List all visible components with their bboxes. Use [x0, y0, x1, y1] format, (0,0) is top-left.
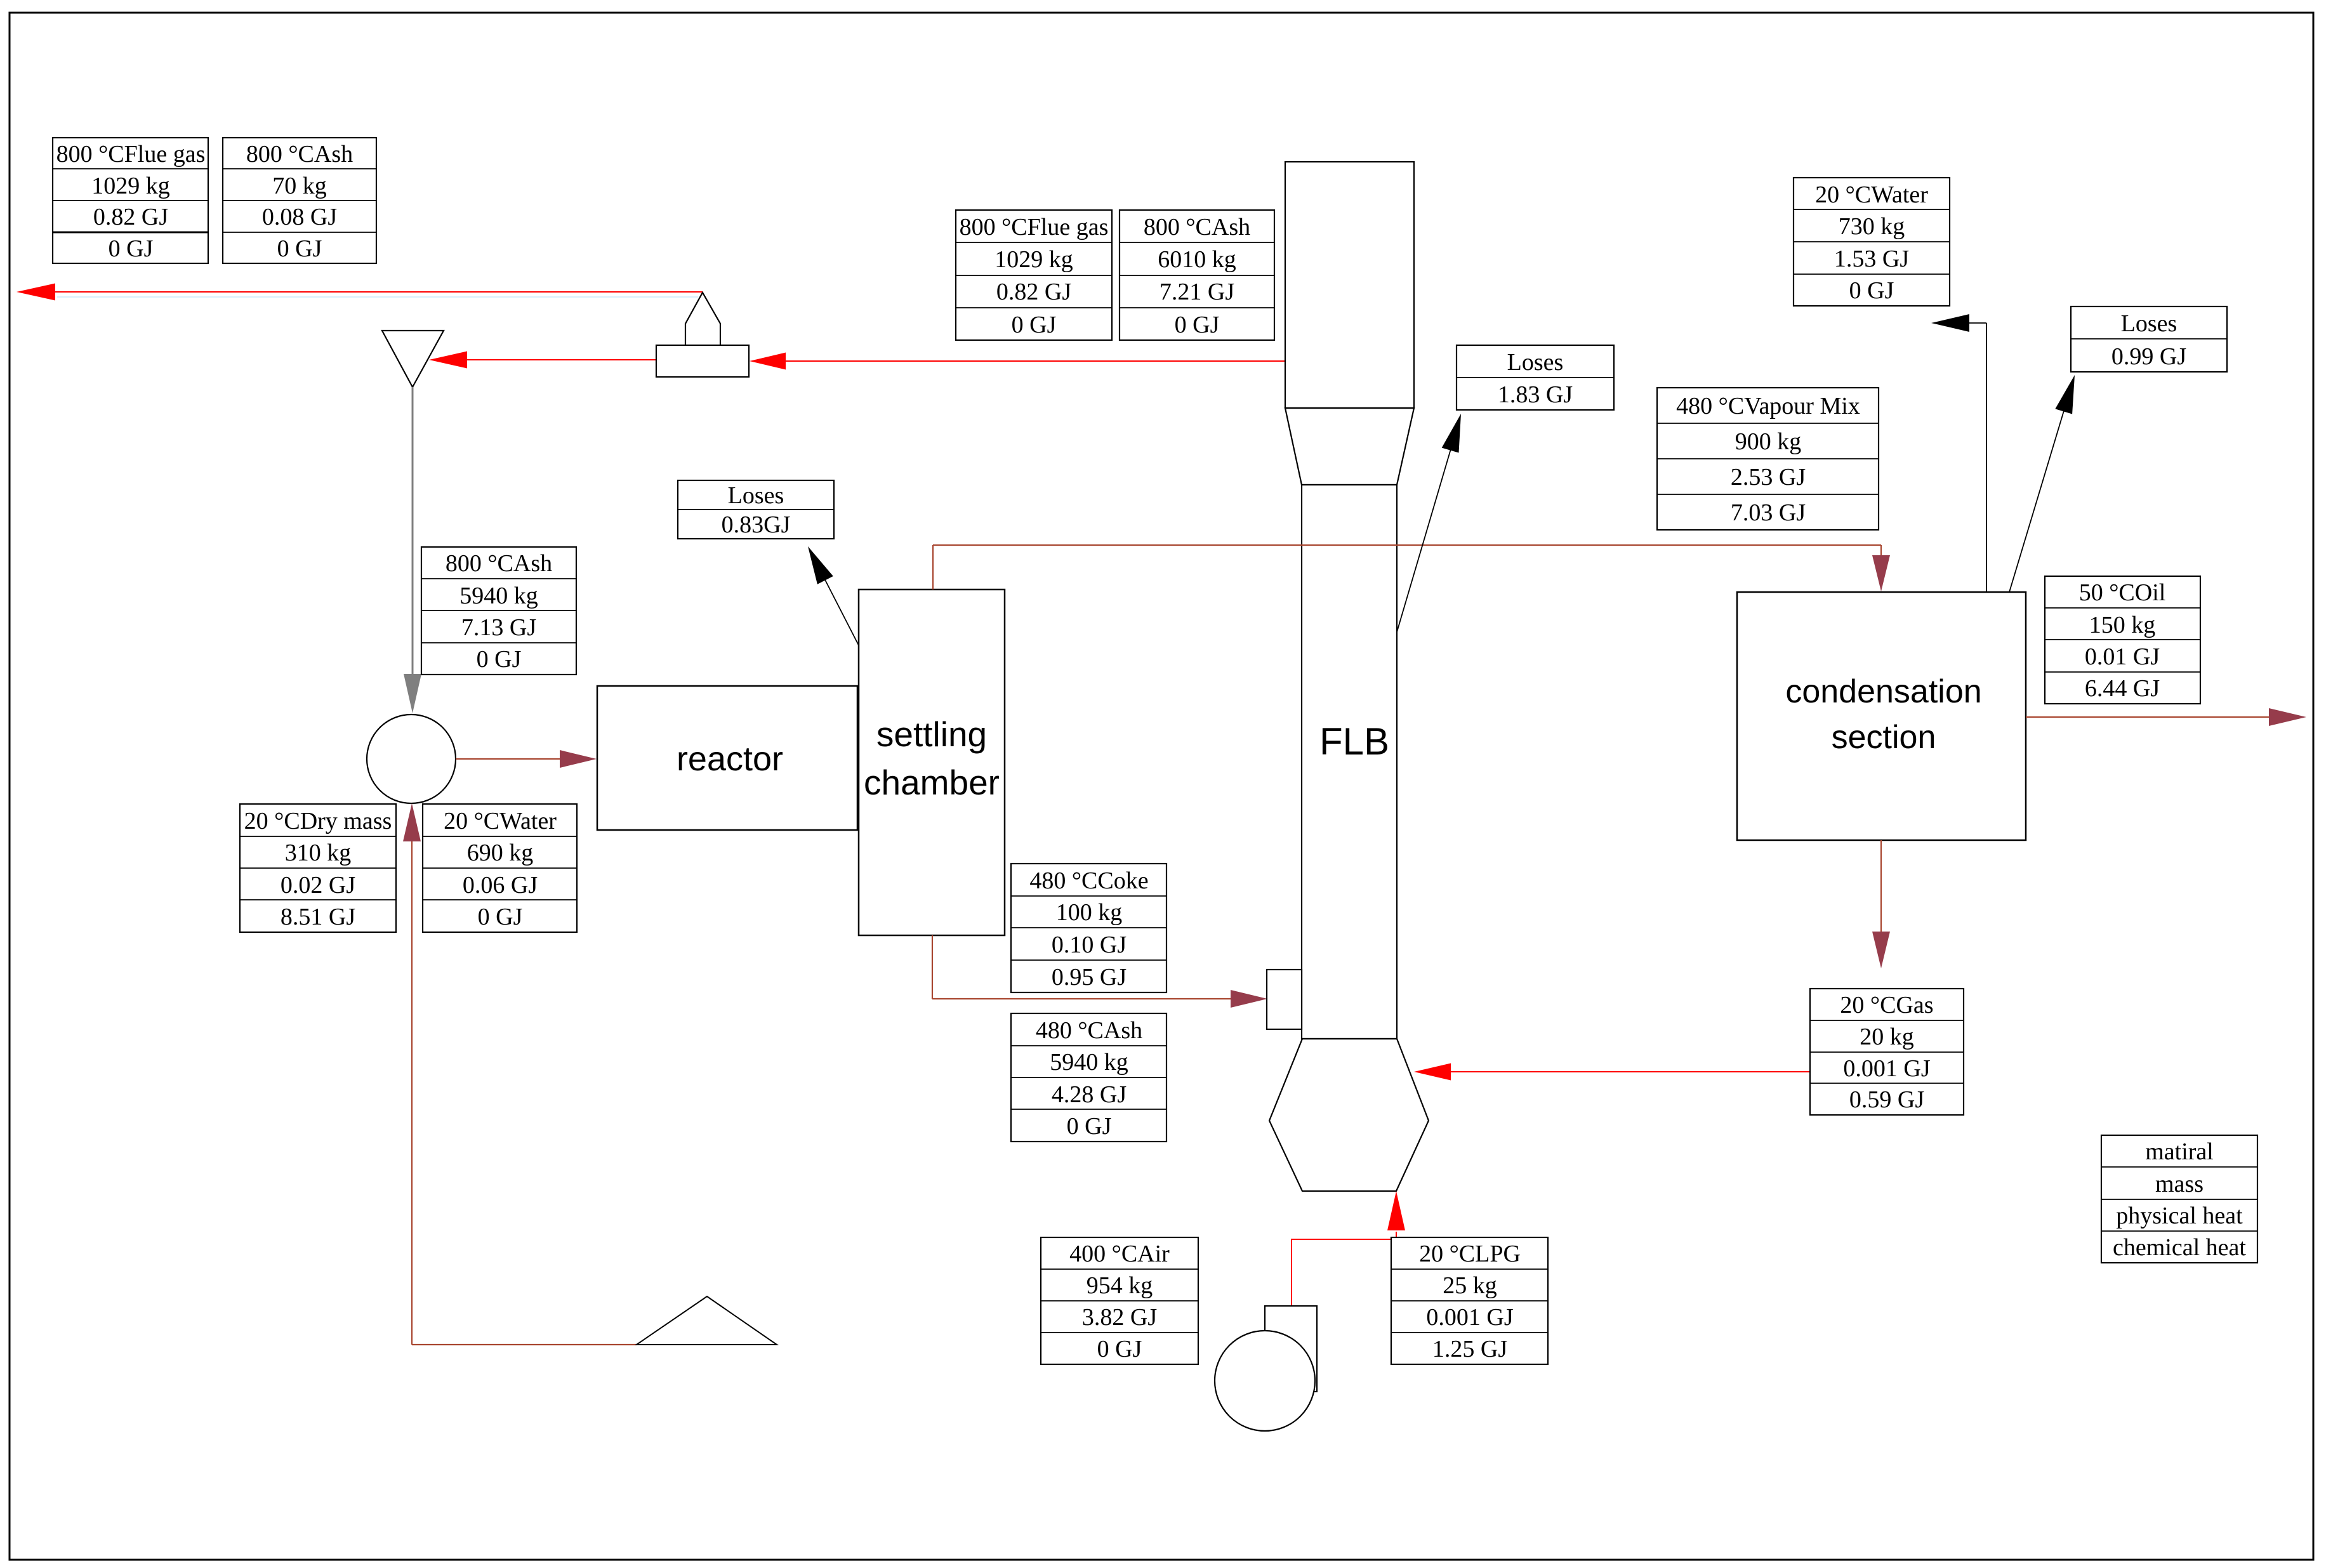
- wire faint blue shadow: [57, 296, 698, 298]
- svg-text:0 GJ: 0 GJ: [1175, 312, 1220, 338]
- svg-text:0.001 GJ: 0.001 GJ: [1843, 1055, 1930, 1082]
- svg-text:690 kg: 690 kg: [467, 840, 534, 866]
- table coke: [1011, 864, 1166, 992]
- table oil: [2045, 576, 2200, 704]
- svg-text:0.02 GJ: 0.02 GJ: [281, 872, 355, 899]
- arrow red into funnel: [429, 352, 467, 369]
- svg-text:0.01 GJ: 0.01 GJ: [2085, 643, 2160, 670]
- wire brick vapour down: [1880, 545, 1882, 557]
- table dry mass feed: [240, 804, 396, 932]
- FLB column: [1302, 485, 1397, 1039]
- FLB nozzle: [1267, 970, 1302, 1029]
- svg-text:1029 kg: 1029 kg: [994, 246, 1073, 273]
- table ash fines: [223, 138, 376, 263]
- wire black water horiz: [1967, 322, 1986, 324]
- svg-text:mass: mass: [2155, 1171, 2204, 1197]
- svg-text:310 kg: 310 kg: [285, 840, 352, 866]
- table water feed: [423, 804, 577, 932]
- wire brick vapour up: [932, 545, 934, 590]
- arrow maroon into condensation: [1872, 555, 1890, 591]
- svg-text:50 °COil: 50 °COil: [2079, 579, 2166, 606]
- table ash 480: [1011, 1013, 1166, 1142]
- svg-text:0 GJ: 0 GJ: [478, 904, 523, 930]
- svg-text:480 °CAsh: 480 °CAsh: [1036, 1017, 1142, 1044]
- svg-text:0 GJ: 0 GJ: [277, 235, 322, 262]
- svg-text:0.95 GJ: 0.95 GJ: [1052, 964, 1127, 991]
- T separator body: [656, 345, 749, 377]
- wire brick coke across: [932, 998, 1231, 999]
- svg-text:0.001 GJ: 0.001 GJ: [1426, 1304, 1513, 1331]
- svg-text:400 °CAir: 400 °CAir: [1069, 1241, 1170, 1267]
- arrow gray into mixer: [404, 674, 421, 713]
- table loses FLB: [1457, 345, 1614, 410]
- svg-text:1.53 GJ: 1.53 GJ: [1834, 246, 1909, 272]
- svg-text:800 °CAsh: 800 °CAsh: [246, 141, 353, 168]
- svg-text:730 kg: 730 kg: [1839, 213, 1905, 240]
- svg-text:7.03 GJ: 7.03 GJ: [1731, 499, 1806, 526]
- arrow maroon coke into FLB: [1231, 990, 1267, 1008]
- svg-text:Loses: Loses: [728, 482, 784, 509]
- svg-text:2.53 GJ: 2.53 GJ: [1731, 464, 1806, 491]
- wire brick feed bottom: [412, 1344, 637, 1345]
- svg-text:0.59 GJ: 0.59 GJ: [1849, 1086, 1924, 1113]
- wire brick oil out: [2026, 716, 2271, 718]
- svg-text:0 GJ: 0 GJ: [1012, 312, 1057, 338]
- svg-text:0 GJ: 0 GJ: [1097, 1336, 1142, 1362]
- svg-text:1.83 GJ: 1.83 GJ: [1498, 381, 1573, 408]
- table loses settling: [678, 480, 834, 539]
- mixer: [367, 715, 456, 803]
- wire black water vert: [1986, 323, 1987, 592]
- wire brick gas down: [1880, 840, 1882, 933]
- svg-text:20 °CWater: 20 °CWater: [1815, 181, 1928, 208]
- table flue gas recycle thick divider: [53, 232, 208, 234]
- reactor: [597, 686, 857, 830]
- svg-text:3.82 GJ: 3.82 GJ: [1082, 1304, 1157, 1331]
- svg-text:condensation: condensation: [1785, 673, 1981, 710]
- svg-text:20 °CWater: 20 °CWater: [444, 808, 557, 834]
- svg-text:20 °CGas: 20 °CGas: [1840, 992, 1933, 1018]
- wire brick feed up: [411, 841, 413, 1345]
- funnel separator: [382, 331, 444, 387]
- arrow red gas into hexagon: [1414, 1064, 1451, 1081]
- svg-text:physical heat: physical heat: [2116, 1202, 2243, 1229]
- arrow black loses 0.99: [2055, 375, 2075, 414]
- svg-text:1029 kg: 1029 kg: [91, 173, 170, 199]
- arrow black to water box: [1931, 314, 1969, 332]
- svg-text:20 kg: 20 kg: [1860, 1024, 1914, 1050]
- table vapour mix: [1657, 388, 1879, 530]
- arrow maroon into reactor: [560, 750, 597, 768]
- FLB taper: [1285, 408, 1414, 485]
- blower outlet: [1265, 1306, 1317, 1392]
- svg-text:20 °CLPG: 20 °CLPG: [1419, 1241, 1521, 1267]
- svg-text:Loses: Loses: [2121, 310, 2177, 337]
- wire black to loses 0.83: [821, 572, 859, 645]
- arrow maroon into mixer bottom: [403, 803, 421, 841]
- svg-text:800 °CAsh: 800 °CAsh: [1144, 214, 1250, 240]
- svg-text:6.44 GJ: 6.44 GJ: [2085, 675, 2160, 702]
- svg-text:8.51 GJ: 8.51 GJ: [281, 904, 355, 930]
- wire red flue gas out (top): [55, 291, 703, 293]
- svg-text:Loses: Loses: [1507, 349, 1564, 376]
- arrow maroon gas down: [1872, 932, 1890, 968]
- svg-text:reactor: reactor: [677, 740, 783, 778]
- svg-text:900 kg: 900 kg: [1735, 428, 1802, 455]
- pile of dry mass: [637, 1296, 777, 1345]
- table ash FLB: [1120, 210, 1274, 340]
- svg-text:800 °CFlue gas: 800 °CFlue gas: [960, 214, 1109, 240]
- svg-text:800 °CFlue gas: 800 °CFlue gas: [56, 141, 206, 168]
- svg-text:0.06 GJ: 0.06 GJ: [463, 872, 538, 899]
- svg-text:0.82 GJ: 0.82 GJ: [93, 204, 168, 230]
- svg-text:7.13 GJ: 7.13 GJ: [461, 614, 536, 641]
- svg-text:20 °CDry mass: 20 °CDry mass: [244, 808, 392, 834]
- table loses condensation: [2071, 306, 2227, 372]
- wire red LPG riser: [1292, 1232, 1396, 1306]
- svg-text:150 kg: 150 kg: [2089, 612, 2156, 638]
- FLB top section: [1285, 162, 1414, 408]
- svg-text:0.82 GJ: 0.82 GJ: [996, 279, 1071, 305]
- wire brick vapour across: [933, 544, 1881, 546]
- svg-text:settling: settling: [876, 715, 987, 754]
- wire brick mixer to reactor: [456, 758, 561, 760]
- svg-text:0.08 GJ: 0.08 GJ: [262, 204, 337, 230]
- arrow red into T separator: [750, 353, 786, 370]
- table gas: [1810, 989, 1964, 1115]
- svg-text:chemical heat: chemical heat: [2113, 1234, 2246, 1261]
- svg-text:0 GJ: 0 GJ: [109, 235, 154, 262]
- arrow black loses 1.83: [1442, 414, 1461, 453]
- wire black to loses 1.83: [1397, 440, 1453, 632]
- arrow red LPG into hexagon: [1387, 1191, 1405, 1230]
- table air: [1041, 1237, 1198, 1364]
- svg-text:5940 kg: 5940 kg: [1050, 1049, 1128, 1076]
- svg-text:5940 kg: 5940 kg: [459, 583, 538, 609]
- wire red flue gas T-FLB: [786, 360, 1285, 362]
- svg-text:70 kg: 70 kg: [272, 173, 327, 199]
- table LPG: [1391, 1237, 1548, 1364]
- svg-text:800 °CAsh: 800 °CAsh: [446, 550, 552, 577]
- svg-text:0 GJ: 0 GJ: [1849, 277, 1894, 304]
- wire brick coke down: [932, 935, 933, 999]
- condensation section: [1737, 592, 2026, 840]
- svg-text:100 kg: 100 kg: [1056, 899, 1123, 926]
- svg-text:FLB: FLB: [1319, 720, 1389, 763]
- wire red gas recycle: [1451, 1071, 1810, 1072]
- blower fan: [1215, 1331, 1315, 1431]
- svg-text:480 °CCoke: 480 °CCoke: [1029, 867, 1148, 894]
- table cooling water: [1794, 178, 1950, 306]
- svg-text:0.83GJ: 0.83GJ: [722, 511, 791, 538]
- arrow red flue gas out left: [17, 284, 55, 301]
- wire gray ash drop: [412, 387, 414, 675]
- wire red flue gas funnel-T: [467, 359, 656, 360]
- svg-text:matiral: matiral: [2145, 1138, 2214, 1165]
- arrow maroon oil out: [2269, 708, 2306, 726]
- svg-text:0.99 GJ: 0.99 GJ: [2111, 343, 2186, 370]
- svg-text:4.28 GJ: 4.28 GJ: [1052, 1081, 1127, 1108]
- svg-text:480 °CVapour Mix: 480 °CVapour Mix: [1676, 393, 1860, 419]
- T separator chimney: [685, 293, 720, 345]
- svg-text:0.10 GJ: 0.10 GJ: [1052, 932, 1127, 958]
- svg-text:25 kg: 25 kg: [1443, 1272, 1497, 1299]
- svg-text:section: section: [1832, 719, 1936, 756]
- svg-text:6010 kg: 6010 kg: [1158, 246, 1236, 273]
- svg-text:0 GJ: 0 GJ: [477, 646, 522, 673]
- settling chamber: [859, 590, 1005, 935]
- svg-text:954 kg: 954 kg: [1087, 1272, 1153, 1299]
- wire black to loses 0.99: [2009, 402, 2066, 592]
- svg-text:0 GJ: 0 GJ: [1067, 1113, 1112, 1140]
- table flue gas FLB: [956, 210, 1112, 340]
- arrow black loses 0.83: [808, 546, 833, 584]
- svg-text:7.21 GJ: 7.21 GJ: [1160, 279, 1234, 305]
- FLB hexagon burner: [1269, 1039, 1429, 1191]
- table hot ash to mixer: [421, 547, 576, 675]
- table legend: [2101, 1135, 2257, 1263]
- table flue gas recycle: [53, 138, 208, 263]
- svg-text:chamber: chamber: [864, 763, 1000, 802]
- svg-text:1.25 GJ: 1.25 GJ: [1432, 1336, 1507, 1362]
